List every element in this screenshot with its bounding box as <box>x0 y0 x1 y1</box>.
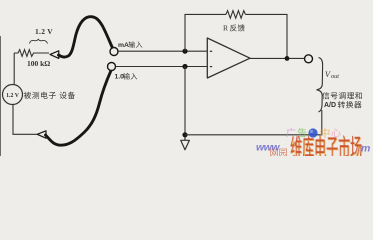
ground rail wire to A/D converter common <box>185 110 322 135</box>
brace to signal conditioning block <box>317 58 323 113</box>
svg-text:www: www <box>256 142 280 154</box>
label 1.0输入 <box>115 73 138 81</box>
watermark row 1 colored characters <box>286 128 306 137</box>
wire voltage input terminal to op-amp non-inverting input <box>116 66 207 68</box>
ground arrow symbol <box>181 137 190 150</box>
label mA输入 <box>118 41 142 49</box>
svg-text:1.2 V: 1.2 V <box>35 27 53 36</box>
watermark row 1 right characters <box>321 128 341 138</box>
probe arrow of return test lead <box>37 131 46 138</box>
probe arrow of mA test lead <box>50 51 59 59</box>
feedback wire right (resistor to output node) <box>245 14 287 58</box>
wire resistor left to source top <box>13 53 15 85</box>
svg-text:100 kΩ: 100 kΩ <box>27 59 50 68</box>
svg-text:A/D: A/D <box>324 102 336 109</box>
terminal voltage input <box>108 63 116 71</box>
svg-text:1.2 V: 1.2 V <box>6 93 20 99</box>
junction node at non-inverting input <box>182 64 187 69</box>
wire source bottom to return probe <box>13 105 37 135</box>
junction node at inverting input <box>182 49 187 54</box>
svg-text:out: out <box>331 73 339 80</box>
watermark red site name characters <box>270 135 362 161</box>
label device under test 被测电子设备 <box>24 92 75 99</box>
watermark .com text <box>361 143 370 155</box>
watermark blue ball icon <box>308 128 317 137</box>
terminal mA input <box>110 48 118 56</box>
wire non-inverting node down to ground rail <box>184 67 186 135</box>
horizontal brace under 1.2 V label <box>30 39 48 43</box>
terminal Vout <box>305 55 313 63</box>
svg-text:R: R <box>223 24 229 33</box>
test lead cable (probe to mA input terminal) <box>59 17 113 57</box>
resistor R1 100 kOhm <box>14 50 49 57</box>
wire mA input terminal to op-amp inverting input <box>118 50 207 52</box>
op-amp U1 <box>207 38 250 78</box>
output junction node (feedback tap) <box>285 56 290 61</box>
label Vout <box>325 70 339 80</box>
test lead cable (return probe to voltage input terminal) <box>46 71 112 146</box>
voltage source 1.2 V (device under test) <box>3 85 23 105</box>
label A/D转换器 <box>324 101 361 109</box>
svg-text:1.0: 1.0 <box>115 74 125 81</box>
feedback resistor R反馈 <box>226 11 245 19</box>
label 100 kOhm <box>27 59 50 68</box>
label R反馈 <box>223 24 245 33</box>
label 1.2 V (voltage across resistor) <box>35 27 53 36</box>
ground junction node <box>182 132 187 137</box>
output wire op-amp to Vout terminal <box>250 57 304 59</box>
feedback wire left (inverting input up to feedback resistor) <box>185 14 226 51</box>
svg-text:m: m <box>361 143 370 155</box>
watermark www text <box>256 142 280 154</box>
label 信号调理和 <box>322 92 362 99</box>
svg-text:mA: mA <box>118 42 129 49</box>
